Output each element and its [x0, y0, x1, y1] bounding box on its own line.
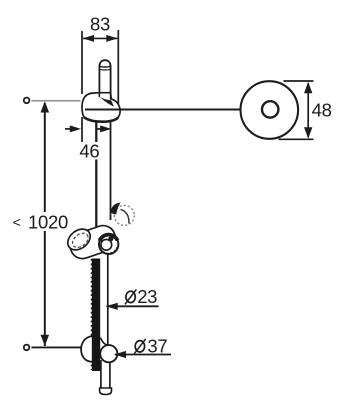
dim 1020 vertical line [41, 101, 50, 346]
dim 83 extension line right [117, 30, 119, 109]
dim 83 label [90, 14, 110, 35]
svg-text:37: 37 [147, 335, 167, 356]
wall bracket top [82, 93, 120, 122]
dim 48 extension top [284, 80, 314, 82]
wall fixing line top (gray) [32, 100, 81, 102]
wall fixing line bottom [32, 346, 83, 348]
dim 48 vertical arrow line [304, 82, 312, 139]
rail below bottom bracket [101, 360, 110, 389]
dia 37 label [114, 335, 171, 358]
dim 48 extension bottom [279, 138, 314, 140]
svg-text:46: 46 [79, 141, 99, 162]
dia 23 label [106, 286, 159, 310]
slider holder body [67, 222, 119, 262]
svg-text:83: 83 [90, 14, 110, 35]
dim 83 arrow line [83, 35, 118, 42]
rail dark stripe [92, 259, 100, 372]
dim 48 label [312, 100, 332, 121]
dim 46 right arrow [97, 125, 112, 132]
wall plate circle [240, 81, 298, 139]
rail lower right edge [107, 254, 109, 363]
rail tube lower section white [101, 258, 109, 368]
dim 46 label [79, 141, 102, 162]
rail dark stripe serration [90, 259, 92, 370]
horizontal line to wall plate [85, 109, 241, 111]
dim 46 left arrow [65, 125, 81, 132]
bottom bracket wall bump [81, 336, 94, 362]
bottom bracket neck arc [100, 338, 108, 346]
rail end cap [100, 388, 112, 395]
wall plate inner hole [262, 101, 278, 117]
dim 1020 label [10, 211, 70, 232]
top pipe end above bracket [99, 60, 110, 93]
svg-text:48: 48 [312, 100, 332, 121]
holder cone socket [99, 235, 118, 254]
wall screw circle bottom [24, 345, 30, 351]
svg-text:<: < [13, 214, 21, 230]
svg-text:1020: 1020 [28, 211, 68, 232]
horizontal line over bracket [85, 109, 160, 111]
bottom bracket cone knob [100, 345, 117, 362]
rail tube upper section [96, 120, 110, 230]
wall screw circle top [24, 98, 30, 104]
svg-text:23: 23 [137, 286, 157, 307]
slider clamp knob [111, 203, 134, 226]
dim 83 extension line left [81, 31, 83, 158]
holder opening ellipse [64, 225, 95, 254]
